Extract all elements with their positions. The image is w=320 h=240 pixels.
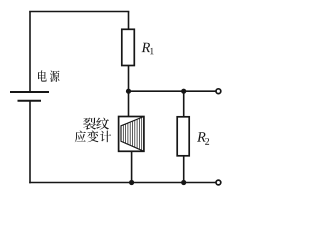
wire: R1 bottom lead to node bbox=[128, 66, 130, 92]
label R1 bbox=[142, 43, 154, 55]
node: junction of R2 bottom and bottom rail bbox=[181, 180, 186, 185]
wire: R2 top lead bbox=[183, 91, 185, 117]
wire: bottom horizontal rail bbox=[29, 182, 216, 184]
label R2 bbox=[197, 132, 209, 145]
label 电源 (power source) bbox=[38, 70, 60, 82]
crack strain gauge (裂纹应变计): body bbox=[119, 117, 144, 152]
resistor R1 bbox=[122, 29, 135, 65]
wire: strain gauge top lead bbox=[128, 91, 130, 116]
resistor R2 bbox=[177, 117, 189, 156]
wire: left vertical from battery - plate down to bottom rail bbox=[29, 101, 31, 184]
wire: R2 bottom lead bbox=[183, 156, 185, 183]
wire: top horizontal rail bbox=[29, 11, 129, 13]
wire: strain gauge bottom lead bbox=[131, 151, 133, 182]
wire: top output rail bbox=[129, 90, 217, 92]
label 裂纹应变计 line 2: 应变计 bbox=[75, 131, 111, 143]
label 裂纹应变计 line 1: 裂纹 bbox=[83, 118, 109, 130]
terminal: top output (open circle) bbox=[216, 89, 221, 94]
node: junction of gauge bottom and bottom rail bbox=[129, 180, 134, 185]
battery B (电源): short negative plate bbox=[18, 100, 42, 102]
wire: left vertical from top-left corner down to battery + plate bbox=[29, 12, 31, 93]
terminal: bottom output (open circle) bbox=[216, 180, 221, 185]
battery B (电源): long positive plate bbox=[10, 91, 49, 93]
wire: R1 top lead bbox=[128, 12, 130, 30]
node: junction of top rail and R2 top bbox=[181, 89, 186, 94]
node: junction of R1, gauge and top output rail bbox=[126, 89, 131, 94]
